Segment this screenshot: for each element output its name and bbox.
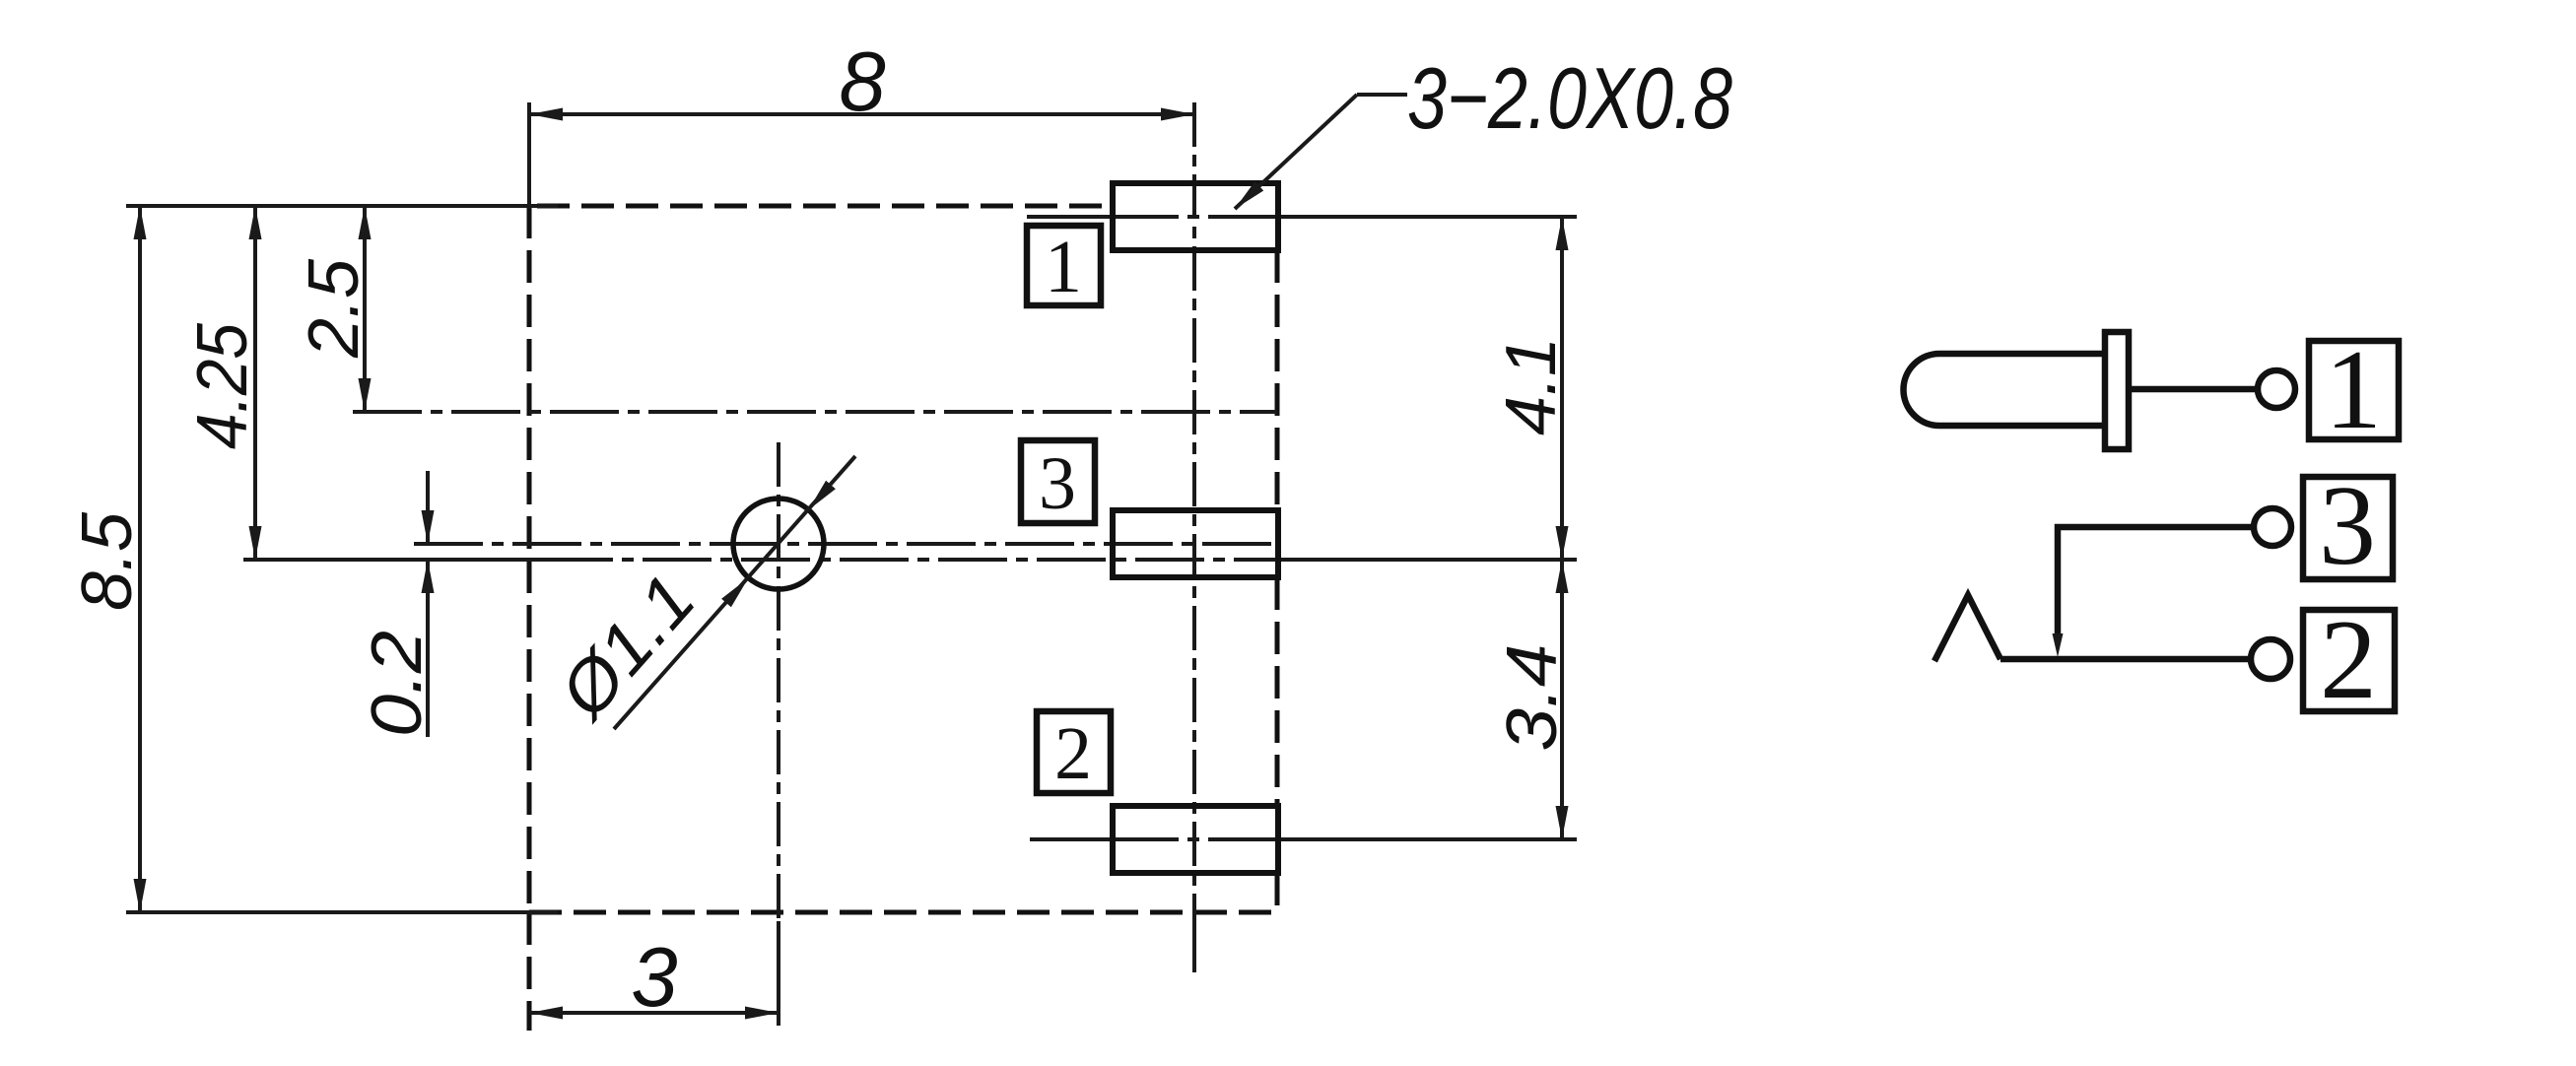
- svg-text:3: 3: [1039, 442, 1076, 525]
- package outline top edge (hidden line): [537, 204, 1110, 209]
- schematic: jack plug body: [1904, 354, 2106, 426]
- pad 3 / hole horizontal centerline: [414, 542, 1281, 546]
- svg-text:3.4: 3.4: [1493, 644, 1572, 752]
- svg-text:4.25: 4.25: [183, 322, 262, 449]
- hole circle dia 1.1: [733, 499, 824, 589]
- schematic: box 2: [2303, 610, 2395, 711]
- schematic: terminal circle 3: [2254, 508, 2291, 546]
- dimension 4.25 line: [253, 206, 257, 560]
- dia 1.1 leader line: [614, 456, 855, 729]
- schematic: switch chevron: [1934, 595, 2000, 661]
- schematic: wire to terminal 1: [2129, 386, 2258, 393]
- svg-text:8.5: 8.5: [68, 511, 147, 611]
- package outline left edge: [527, 206, 532, 912]
- hole vertical centerline: [777, 442, 780, 921]
- svg-text:2: 2: [2320, 597, 2377, 723]
- svg-text:3: 3: [2319, 463, 2376, 589]
- label box 2: [1037, 711, 1111, 793]
- dimension 2.5 line: [363, 206, 367, 412]
- schematic: wire to terminal 2: [2000, 656, 2252, 663]
- dimension 8.5 line: [138, 206, 142, 912]
- dimension 3 (bottom) line: [529, 1011, 779, 1015]
- top extension line: [126, 204, 558, 208]
- pad column vertical centerline: [1192, 102, 1196, 916]
- svg-text:1: 1: [1045, 226, 1082, 308]
- svg-text:2: 2: [1054, 712, 1092, 795]
- bottom extension line: [126, 910, 558, 914]
- svg-text:3−2.0X0.8: 3−2.0X0.8: [1407, 49, 1732, 147]
- pad 1 (2.0x0.8): [1113, 183, 1278, 250]
- extension line x=537 upper: [527, 102, 531, 209]
- label box 3: [1021, 440, 1095, 523]
- svg-text:4.1: 4.1: [1492, 337, 1571, 435]
- pad 2: [1113, 806, 1278, 873]
- schematic: box 1: [2309, 341, 2399, 439]
- schematic: plug collar: [2105, 332, 2129, 449]
- schematic: box 3: [2303, 477, 2393, 579]
- pad 1 centerline: [1027, 215, 1110, 219]
- svg-text:3: 3: [631, 931, 677, 1025]
- package outline right edge segment 3: [1275, 873, 1280, 913]
- schematic: terminal circle 2: [2251, 639, 2290, 679]
- package middle centerline: [243, 558, 544, 562]
- dimension 4.1 / 3.4 vertical line: [1560, 217, 1564, 839]
- label box 1: [1027, 226, 1101, 305]
- svg-text:8: 8: [839, 35, 885, 129]
- pad 2 centerline: [1030, 837, 1110, 841]
- svg-text:0.2: 0.2: [358, 631, 437, 737]
- dimension 0.2 arrows: [426, 471, 430, 544]
- left edge extension below (dashed): [527, 912, 532, 1031]
- package outline right edge segment 1: [1275, 250, 1280, 510]
- svg-text:1: 1: [2325, 327, 2382, 453]
- schematic: terminal circle 1: [2258, 370, 2295, 408]
- package outline right edge segment 2: [1275, 577, 1280, 806]
- pad 3: [1113, 510, 1278, 577]
- dimension 8 line: [529, 112, 1194, 116]
- svg-text:2.5: 2.5: [295, 258, 373, 359]
- schematic: wire to terminal 3: [2058, 527, 2254, 634]
- leader 3-2.0X0.8: [1357, 93, 1407, 97]
- package outline bottom edge: [529, 910, 1277, 915]
- centerline at 2.5 level: [353, 410, 1277, 414]
